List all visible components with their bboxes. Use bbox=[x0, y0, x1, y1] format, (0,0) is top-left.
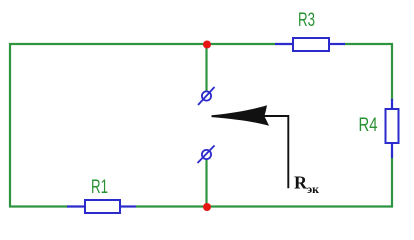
svg-text:R1: R1 bbox=[91, 177, 108, 198]
node junction bottom (red dot) bbox=[203, 203, 211, 211]
node junction top (red dot) bbox=[203, 41, 211, 49]
resistor R4 body bbox=[386, 109, 399, 143]
wire left rail bbox=[9, 43, 11, 208]
wire middle branch upper (top junction to terminal a) bbox=[205, 44, 207, 91]
resistor R1 body bbox=[85, 200, 120, 213]
resistor R3 leads (blue) bbox=[275, 43, 293, 45]
wire bottom-left segment (left corner to R1 lead) bbox=[9, 205, 68, 207]
wire top-left segment (top rail from left corner to R3 lead) bbox=[9, 43, 276, 45]
wire top-right segment (R3 to top-right corner) bbox=[344, 43, 393, 45]
wire middle branch lower (terminal b to bottom junction) bbox=[205, 159, 207, 207]
svg-text:Rэк: Rэк bbox=[294, 173, 319, 197]
terminal b (open circle with slash, lower) bbox=[198, 146, 215, 164]
resistor R4 leads (blue) bbox=[391, 99, 393, 110]
arrowhead pointing to terminals bbox=[212, 105, 270, 126]
svg-text:R4: R4 bbox=[359, 115, 378, 136]
resistor R3 body bbox=[293, 38, 329, 51]
svg-text:R3: R3 bbox=[298, 10, 315, 31]
terminal a (open circle with slash, upper) bbox=[198, 87, 215, 105]
wire right rail lower segment (R4 to bottom-right corner) bbox=[391, 157, 393, 208]
wire pointer line to R_ek label (black) bbox=[263, 116, 288, 188]
wire right rail upper segment (top-right corner to R4 lead) bbox=[391, 43, 393, 100]
resistor R1 leads (blue) bbox=[67, 205, 86, 207]
wire bottom-right segment (R1 to bottom-right corner) bbox=[136, 205, 393, 207]
